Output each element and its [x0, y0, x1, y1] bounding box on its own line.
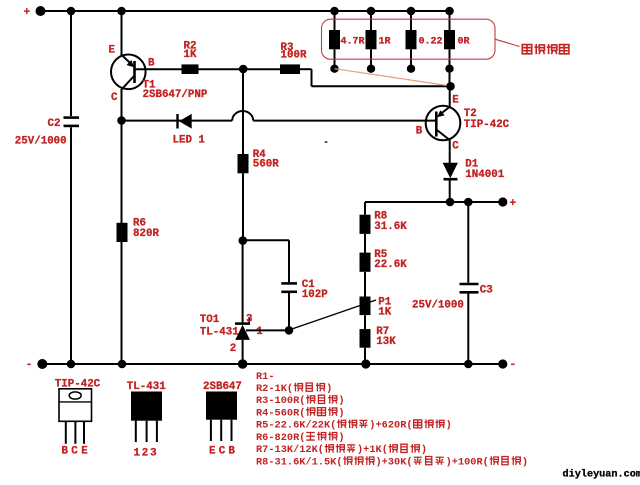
- junction D1 output: [446, 198, 455, 207]
- junction top rail T1 branch: [117, 7, 126, 16]
- package TO-92 TL-431: [131, 392, 162, 443]
- svg-text:1: 1: [134, 448, 141, 460]
- svg-text:22.6K: 22.6K: [374, 259, 407, 271]
- svg-text:3: 3: [246, 313, 252, 325]
- junction ref node: [285, 326, 294, 335]
- LED 1 diode: [178, 114, 192, 129]
- label parts list line 5: R5-22.6K/22K(紅紅澄)+620R(藍紅棕): [256, 419, 452, 431]
- wire node to C1 branch: [243, 240, 289, 282]
- svg-text:1N4001: 1N4001: [465, 169, 504, 181]
- svg-text:B: B: [62, 445, 69, 457]
- svg-text:diyleyuan.com: diyleyuan.com: [563, 468, 640, 480]
- node - input negative terminal: [26, 359, 48, 371]
- svg-text:R3-100R(: R3-100R(: [256, 395, 305, 407]
- label current adjust (CJK): [522, 44, 569, 54]
- svg-text:0R: 0R: [458, 36, 470, 47]
- svg-text:25V/1000: 25V/1000: [15, 136, 67, 148]
- wire C2 branch upper: [70, 11, 72, 116]
- junction T1 collector node: [117, 116, 126, 125]
- svg-text:1: 1: [256, 326, 263, 338]
- svg-text:560R: 560R: [253, 158, 279, 170]
- svg-text:B: B: [148, 57, 155, 69]
- svg-text:-: -: [510, 359, 517, 371]
- resistor R bank 0R: [444, 7, 455, 73]
- svg-text:): ): [326, 383, 332, 395]
- wire wiper diagonal to P1: [289, 300, 376, 330]
- wire C3 branch upper: [467, 202, 469, 283]
- wire R8 to R5: [364, 234, 366, 253]
- capacitor C3: [460, 284, 479, 292]
- svg-text:)+100R(: )+100R(: [446, 457, 489, 469]
- svg-text:13K: 13K: [376, 336, 396, 348]
- wire T1 collector node down to R6: [121, 121, 123, 224]
- svg-text:R7-13K/12K(: R7-13K/12K(: [256, 444, 324, 456]
- svg-text:+: +: [24, 7, 31, 19]
- svg-text:2: 2: [142, 448, 148, 460]
- svg-text:): ): [446, 420, 452, 432]
- label parts list line 7: R7-13K/12K(棕紅澄)+1K(棕黑紅): [256, 444, 427, 456]
- label parts list line 8: R8-31.6K/1.5K(棕綠紅)+30K(澄黑澄)+100R(棕黑棕): [256, 456, 528, 468]
- junction C3 top: [464, 198, 473, 207]
- label parts list line 1: R1-: [256, 371, 275, 383]
- svg-text:25V/1000: 25V/1000: [412, 300, 464, 312]
- capacitor C1: [281, 283, 297, 291]
- svg-text:2SB647/PNP: 2SB647/PNP: [143, 89, 208, 101]
- svg-text:)+620R(: )+620R(: [369, 420, 412, 432]
- svg-text:): ): [338, 395, 344, 407]
- wire collector row left segment: [122, 120, 233, 122]
- svg-text:1K: 1K: [378, 307, 391, 319]
- svg-text:C: C: [219, 445, 226, 457]
- svg-text:-: -: [26, 359, 33, 371]
- svg-text:B: B: [416, 126, 423, 138]
- label B C E pins: [62, 445, 89, 457]
- svg-text:E: E: [109, 44, 116, 56]
- wire T1 base to R2: [135, 68, 182, 70]
- wire T2 collector to D1: [449, 139, 451, 163]
- wire T1 emitter from top rail: [121, 11, 123, 55]
- potentiometer P1: [360, 297, 371, 316]
- svg-text:C2: C2: [48, 118, 61, 130]
- resistor R3: [280, 64, 300, 74]
- svg-text:+: +: [510, 198, 517, 210]
- wire R4 to TL431 node: [242, 173, 244, 240]
- package TO-92 2SB647: [206, 392, 237, 442]
- svg-text:R1-: R1-: [256, 371, 275, 383]
- wire output node rail: [365, 201, 503, 203]
- svg-text:)+1K(: )+1K(: [357, 444, 388, 456]
- package TO-220 TIP-42C: [59, 389, 92, 444]
- junction T2 emitter node: [446, 82, 455, 91]
- wire R2 to R3: [199, 68, 281, 70]
- resistor R6: [117, 223, 128, 242]
- resistor R2: [182, 64, 199, 74]
- wire R6 to bottom rail: [121, 242, 123, 365]
- svg-text:C: C: [452, 141, 459, 153]
- current adjust selection box: [322, 19, 496, 59]
- junction R4/TL431/C1 node: [239, 236, 248, 245]
- junction top rail C2 branch: [67, 7, 76, 16]
- wire node down to TL431 cathode: [242, 241, 244, 323]
- junction bottom R6: [118, 360, 127, 369]
- svg-text:820R: 820R: [133, 228, 159, 240]
- wire TL431 ref pin: [246, 329, 289, 331]
- svg-text:3: 3: [150, 448, 156, 460]
- label parts list line 4: R4-560R(綠藍棕): [256, 407, 345, 419]
- resistor R bank 0.22: [406, 7, 417, 73]
- transistor T2 TIP-42C: [426, 106, 461, 141]
- capacitor C2: [64, 118, 80, 126]
- svg-text:E: E: [452, 95, 459, 107]
- svg-text:4.7R: 4.7R: [341, 36, 365, 47]
- label 1 2 3 pins: [134, 448, 157, 460]
- svg-text:102P: 102P: [302, 289, 328, 301]
- junction bottom R7: [361, 359, 370, 368]
- svg-text:1R: 1R: [379, 36, 391, 47]
- svg-text:): ): [421, 444, 427, 456]
- svg-text:C: C: [71, 445, 78, 457]
- svg-text:E: E: [209, 445, 216, 457]
- wire top rail: [41, 10, 450, 12]
- wire 0R bottom to emitter node: [449, 69, 451, 87]
- junction bottom TL431: [238, 359, 248, 369]
- node + input positive terminal: [24, 6, 46, 19]
- svg-text:R6-820R(: R6-820R(: [256, 432, 305, 444]
- resistor R8: [360, 215, 371, 234]
- wire bottom rail: [42, 363, 503, 365]
- svg-text:TIP-42C: TIP-42C: [464, 119, 510, 131]
- output positive terminal: [498, 197, 516, 210]
- svg-text:TL-431: TL-431: [127, 381, 166, 393]
- stray mark: [325, 141, 328, 143]
- svg-text:C: C: [111, 92, 118, 104]
- svg-text:)+30K(: )+30K(: [376, 457, 413, 469]
- wire R7 to bottom rail: [364, 348, 366, 364]
- label parts list line 3: R3-100R(棕黑棕): [256, 395, 345, 407]
- wire base node down to R4: [242, 69, 244, 154]
- svg-text:0.22: 0.22: [419, 36, 443, 47]
- svg-text:31.6K: 31.6K: [374, 221, 407, 233]
- wire C3 branch lower: [467, 294, 469, 365]
- svg-text:R4-560R(: R4-560R(: [256, 407, 305, 419]
- wire C2 branch lower: [70, 127, 72, 364]
- wire hop over R4 branch: [232, 111, 253, 121]
- svg-text:LED 1: LED 1: [173, 134, 206, 146]
- svg-text:2SB647: 2SB647: [203, 381, 242, 393]
- junction node base/R4: [239, 65, 248, 74]
- resistor R bank 4.7R: [329, 7, 340, 73]
- label E C B pins: [209, 445, 235, 457]
- wire R5 to P1: [364, 272, 366, 297]
- svg-text:): ): [522, 457, 528, 469]
- resistor R bank 1R: [366, 7, 377, 73]
- svg-text:): ): [338, 432, 344, 444]
- label parts list line 6: R6-820R(灰紅棕): [256, 432, 345, 444]
- svg-text:TO1: TO1: [200, 314, 220, 326]
- svg-text:1K: 1K: [184, 49, 197, 61]
- svg-text:E: E: [81, 445, 88, 457]
- output negative terminal: [498, 359, 516, 371]
- junction bottom C2: [67, 360, 76, 369]
- svg-text:R2-1K(: R2-1K(: [256, 383, 293, 395]
- callout line to current-adjust label: [495, 39, 520, 46]
- svg-text:R8-31.6K/1.5K(: R8-31.6K/1.5K(: [256, 457, 343, 469]
- wire collector row right segment to T2 base: [253, 120, 436, 122]
- svg-text:): ): [338, 407, 344, 419]
- junction bottom C3: [464, 360, 473, 369]
- wire emitter node to T2: [449, 86, 451, 107]
- resistor R4: [238, 154, 249, 173]
- svg-text:100R: 100R: [281, 49, 307, 61]
- label parts list line 2: R2-1K(棕黑紅): [256, 383, 332, 395]
- svg-text:TL-431: TL-431: [200, 327, 239, 339]
- svg-text:C3: C3: [480, 285, 493, 297]
- wire C1 to ref node: [288, 293, 290, 330]
- resistor R7: [360, 329, 371, 348]
- svg-text:2: 2: [230, 343, 236, 355]
- transistor T1 2SB647 PNP: [111, 55, 146, 90]
- wire output node down to R8: [364, 202, 366, 215]
- svg-text:R5-22.6K/22K(: R5-22.6K/22K(: [256, 420, 336, 432]
- wire salmon diagonal bank to emitter node: [335, 69, 451, 86]
- svg-text:B: B: [228, 445, 235, 457]
- wire R3 to T2 emitter node: [300, 69, 451, 86]
- resistor R5: [360, 253, 371, 272]
- wire T1 collector down: [121, 89, 123, 121]
- wire P1 to R7: [364, 315, 366, 329]
- shunt regulator TO1 TL-431: [235, 318, 250, 364]
- diode D1 1N4001: [443, 163, 458, 202]
